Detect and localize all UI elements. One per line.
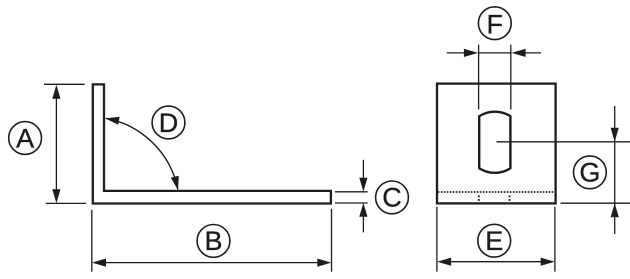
bend line (dotted) — [438, 191, 554, 193]
dimension E right arrowhead — [541, 258, 555, 266]
svg-text:F: F — [487, 9, 504, 39]
dimension A top extension line — [44, 83, 85, 85]
hidden slot edge left (dotted) — [478, 195, 480, 201]
balloon F circle — [478, 7, 511, 40]
dimension F right extension line — [510, 45, 512, 110]
dimension B right extension line — [331, 209, 333, 272]
dimension G bottom extension line — [561, 202, 630, 204]
slot (obround hole) — [479, 112, 510, 173]
dimension C lower arrow line — [362, 216, 364, 232]
dimension E left extension line — [436, 207, 438, 272]
balloon B circle — [197, 225, 230, 258]
balloon A circle — [9, 122, 42, 155]
dimension C upper arrow line — [362, 160, 364, 179]
bracket side view (L profile) — [93, 84, 331, 203]
dimension B left extension line — [91, 210, 93, 272]
balloon C circle — [376, 181, 409, 214]
dimension B arrow left — [92, 259, 106, 267]
hidden slot edge right (dotted) — [509, 195, 511, 201]
angle D upper arrowhead — [105, 117, 119, 125]
dimension G leader from slot center — [497, 141, 630, 143]
dimension E line — [450, 261, 542, 263]
bracket front view square — [437, 84, 556, 204]
dimension C bottom extension line — [335, 202, 368, 204]
svg-text:E: E — [485, 226, 503, 256]
dimension G vertical line — [614, 106, 616, 234]
dimension E right extension line — [554, 207, 556, 272]
dimension A line — [55, 97, 57, 191]
svg-text:D: D — [159, 108, 179, 138]
dimension G upper arrowhead — [611, 128, 619, 142]
dimension F middle line — [478, 52, 512, 54]
dimension G lower arrowhead — [611, 203, 619, 217]
svg-text:C: C — [382, 183, 402, 213]
dimension F left extension line — [478, 45, 480, 110]
dimension E left arrowhead — [437, 258, 451, 266]
dimension C lower arrowhead — [359, 203, 367, 217]
dimension C top extension line — [335, 191, 368, 193]
svg-text:B: B — [204, 226, 222, 256]
dimension F left line — [447, 52, 465, 54]
dimension C upper arrowhead — [359, 178, 367, 192]
dimension B line — [105, 262, 319, 264]
dimension F right arrowhead — [512, 49, 526, 57]
dimension A arrow up — [52, 85, 60, 99]
dimension F left arrowhead — [464, 49, 478, 57]
angle D lower arrowhead — [171, 176, 179, 191]
dimension A arrow down — [52, 189, 60, 203]
balloon E circle — [478, 224, 511, 257]
dimension A bottom extension line — [46, 202, 86, 204]
dimension F right line — [525, 52, 541, 54]
balloon D circle — [152, 106, 185, 139]
angle dimension D arc — [106, 118, 178, 189]
balloon G circle — [574, 156, 607, 189]
dimension B arrow right — [317, 259, 331, 267]
svg-text:A: A — [16, 123, 34, 153]
svg-text:G: G — [579, 158, 600, 188]
